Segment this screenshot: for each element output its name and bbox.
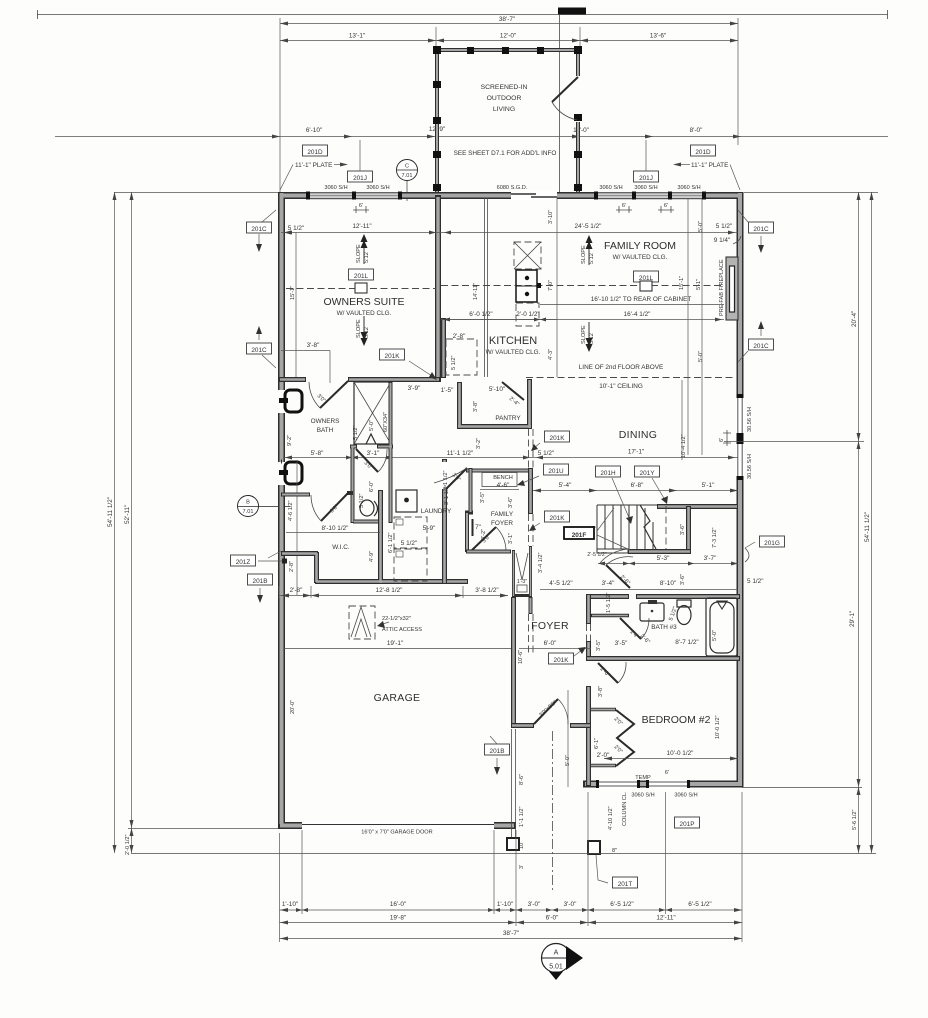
label 201C right top: [749, 222, 774, 233]
svg-text:12'-11": 12'-11": [352, 223, 371, 230]
svg-text:3060 S/H: 3060 S/H: [634, 185, 657, 191]
svg-text:5'-1": 5'-1": [696, 279, 702, 290]
svg-text:10'-0 1/2": 10'-0 1/2": [667, 750, 694, 757]
shower: [353, 382, 391, 444]
svg-text:6': 6': [665, 770, 669, 776]
SECTION:ANNROW: [280, 140, 740, 191]
svg-text:8'-10 1/2": 8'-10 1/2": [322, 525, 349, 532]
svg-text:3'-2": 3'-2": [481, 529, 487, 540]
svg-text:201C: 201C: [251, 226, 267, 233]
svg-text:201H: 201H: [600, 470, 616, 477]
svg-text:5'-9": 5'-9": [423, 525, 436, 532]
svg-text:54'-11 1/2": 54'-11 1/2": [107, 497, 114, 527]
svg-text:COLUMN CL.: COLUMN CL.: [622, 791, 628, 826]
svg-text:6'-8": 6'-8": [631, 482, 644, 489]
SECTION:SIDEDIMS: [107, 192, 878, 855]
top border line: [37, 14, 888, 16]
svg-text:3'0": 3'0": [329, 504, 340, 515]
top wall window band family room: [594, 192, 706, 200]
svg-text:11'-1" PLATE: 11'-1" PLATE: [691, 162, 728, 169]
svg-text:30.56 S/H: 30.56 S/H: [747, 454, 753, 479]
svg-text:38'-7": 38'-7": [499, 16, 515, 23]
svg-text:B: B: [246, 500, 250, 506]
svg-text:9 1/4": 9 1/4": [714, 237, 730, 244]
label 201B wic: [248, 574, 273, 585]
svg-text:13'-6": 13'-6": [650, 33, 666, 40]
svg-text:12'-0": 12'-0": [500, 33, 516, 40]
right dim 54-11: [871, 192, 873, 853]
svg-text:3'-10": 3'-10": [548, 210, 554, 224]
svg-text:6'-5 1/2": 6'-5 1/2": [610, 901, 633, 908]
svg-text:3'-6": 3'-6": [508, 497, 514, 508]
owners suite right wall: [435, 195, 441, 379]
left wall window symbol 2: [278, 462, 302, 485]
svg-text:2'-0 1/2": 2'-0 1/2": [516, 311, 539, 318]
label 201U: [544, 464, 569, 475]
svg-text:6'-5 1/2": 6'-5 1/2": [688, 901, 711, 908]
kitchen cabinet dashed: [446, 339, 477, 375]
washer dryer: [394, 517, 427, 581]
svg-text:6'-10": 6'-10": [306, 127, 322, 134]
svg-text:6'-0 1/2": 6'-0 1/2": [469, 311, 492, 318]
leaders from 201J: [359, 140, 361, 171]
svg-text:4'-10 1/2": 4'-10 1/2": [608, 806, 614, 830]
svg-text:3': 3': [519, 865, 525, 869]
svg-text:201K: 201K: [550, 435, 566, 442]
entry porch side edges: [511, 729, 513, 838]
svg-text:201K: 201K: [385, 353, 401, 360]
svg-text:W.I.C.: W.I.C.: [332, 544, 350, 551]
bath3 top wall: [586, 594, 740, 599]
foyer west cased opening: [529, 597, 533, 614]
coat niche: [512, 546, 532, 597]
svg-text:20'-4": 20'-4": [851, 311, 858, 327]
svg-text:1'-10": 1'-10": [497, 901, 513, 908]
svg-text:201Y: 201Y: [640, 470, 656, 477]
svg-text:38'-7": 38'-7": [503, 930, 519, 937]
svg-text:3'-8": 3'-8": [473, 401, 479, 412]
svg-text:201C: 201C: [753, 343, 769, 350]
svg-text:5:12: 5:12: [589, 333, 595, 344]
svg-text:12'-11": 12'-11": [656, 915, 675, 922]
svg-text:6'-0": 6'-0": [369, 481, 375, 492]
svg-text:2'0": 2'0": [613, 716, 624, 727]
label 201C left bottom: [247, 343, 272, 354]
section marker bar: [558, 8, 586, 15]
svg-text:5'-8": 5'-8": [311, 450, 324, 457]
svg-text:KITCHEN: KITCHEN: [489, 335, 537, 347]
svg-text:16'0" x 7'0" GARAGE DOOR: 16'0" x 7'0" GARAGE DOOR: [361, 830, 432, 836]
svg-text:10'-6": 10'-6": [518, 650, 524, 664]
svg-text:3'-4 1/2": 3'-4 1/2": [538, 553, 544, 573]
svg-text:8'-7 1/2": 8'-7 1/2": [675, 639, 698, 646]
svg-text:6'-0": 6'-0": [546, 915, 559, 922]
svg-text:3060 S/H: 3060 S/H: [677, 185, 700, 191]
fireplace: [719, 257, 738, 320]
family foyer door: [471, 527, 496, 551]
kitchen nib wall: [441, 318, 446, 378]
svg-text:SLOPE: SLOPE: [581, 325, 587, 344]
svg-text:12'-8 1/2": 12'-8 1/2": [376, 587, 403, 594]
svg-text:5'-0": 5'-0": [698, 221, 704, 232]
entry porch columns: [507, 838, 519, 850]
svg-text:BATH #3: BATH #3: [651, 624, 677, 631]
svg-text:11'-1" PLATE: 11'-1" PLATE: [295, 162, 332, 169]
svg-text:20'-0": 20'-0": [290, 700, 296, 714]
svg-text:DINING: DINING: [619, 429, 658, 441]
stair dims: [533, 490, 738, 492]
svg-text:2'-8": 2'-8": [453, 333, 466, 340]
wic door: [321, 492, 349, 521]
svg-text:5 1/2": 5 1/2": [359, 494, 365, 508]
top wall window band owners suite: [306, 192, 402, 200]
svg-text:5:12: 5:12: [589, 253, 595, 264]
stairs: [588, 505, 666, 553]
SECTION:BOTTOMDIMS: [280, 792, 743, 942]
svg-text:201T: 201T: [618, 881, 633, 888]
label 201J left: [348, 171, 373, 182]
svg-text:7'-3 1/2": 7'-3 1/2": [712, 528, 718, 548]
svg-text:14'-11": 14'-11": [473, 283, 479, 300]
stair right wall: [686, 506, 691, 552]
section cut line A vertical: [559, 14, 561, 192]
kitchen partition thin: [484, 198, 486, 377]
label 201H: [596, 466, 621, 477]
svg-text:2'-8": 2'-8": [290, 587, 303, 594]
svg-text:3'-5": 3'-5": [596, 640, 602, 651]
svg-text:201D: 201D: [695, 149, 711, 156]
top wall sliding door 6080: [511, 191, 557, 200]
SECTION:GARAGE: [131, 597, 876, 888]
svg-text:4'-5 1/2": 4'-5 1/2": [549, 580, 572, 587]
svg-text:W/ VAULTED CLG.: W/ VAULTED CLG.: [337, 310, 392, 317]
svg-text:6': 6': [359, 203, 363, 209]
svg-text:16'-4 1/2": 16'-4 1/2": [624, 311, 651, 318]
svg-text:GARAGE: GARAGE: [374, 692, 421, 704]
svg-text:201J: 201J: [639, 175, 653, 182]
svg-text:FOYER: FOYER: [531, 620, 569, 632]
svg-text:201K: 201K: [554, 657, 570, 664]
svg-text:LIVING: LIVING: [493, 106, 515, 113]
SECTION:EXTWALLS: [278, 191, 745, 836]
svg-text:29'-1": 29'-1": [849, 611, 856, 627]
svg-text:2'-6": 2'-6": [599, 666, 611, 678]
mud dim row: [279, 595, 508, 597]
svg-text:LAUNDRY: LAUNDRY: [421, 508, 452, 515]
svg-text:201C: 201C: [251, 347, 267, 354]
svg-text:1'-5": 1'-5": [441, 387, 454, 394]
bedroom2 closet: [590, 710, 616, 766]
hall door to bath3: [606, 565, 630, 588]
svg-text:7.01: 7.01: [243, 509, 254, 515]
svg-text:5'-0": 5'-0": [369, 420, 375, 431]
bath3 toilet: [677, 600, 691, 625]
svg-text:8'-6": 8'-6": [519, 774, 525, 785]
kitchen island hatched: [514, 242, 541, 326]
svg-text:4'-9": 4'-9": [369, 551, 375, 562]
dim row 38-7: [280, 938, 743, 940]
porch front line: [131, 853, 876, 855]
svg-text:OWNERS SUITE: OWNERS SUITE: [323, 296, 404, 308]
foyer south wall with front door: [511, 723, 591, 728]
pantry door: [502, 382, 524, 400]
svg-text:SLOPE: SLOPE: [356, 319, 362, 338]
svg-text:201B: 201B: [490, 748, 505, 755]
SECTION:PORCH: [433, 46, 582, 194]
svg-text:FAMILY ROOM: FAMILY ROOM: [604, 240, 676, 252]
svg-text:2'0": 2'0": [613, 744, 624, 755]
laundry door: [441, 462, 448, 489]
family foyer top wall: [466, 469, 533, 473]
svg-text:201L: 201L: [354, 273, 369, 280]
dim row 13'-1 / 12'-0 / 13'-6: [280, 40, 738, 42]
hall dims: [540, 589, 738, 591]
family foyer bottom wall: [466, 550, 511, 554]
svg-text:201B: 201B: [253, 578, 268, 585]
label 201T: [613, 877, 638, 888]
svg-text:5'-3": 5'-3": [657, 555, 670, 562]
svg-text:201P: 201P: [680, 821, 695, 828]
svg-text:PANTRY: PANTRY: [495, 415, 521, 422]
SECTION:RIGHTROOMS: [441, 199, 785, 787]
label 201Z: [231, 555, 256, 566]
svg-text:3'-8": 3'-8": [307, 342, 320, 349]
svg-text:11'-1 1/2": 11'-1 1/2": [447, 450, 473, 457]
laundry walls: [442, 459, 447, 584]
family room right dims: [687, 199, 689, 455]
label 201B garage: [485, 744, 510, 755]
label 201P: [675, 817, 700, 828]
porch screen walls: [437, 50, 578, 194]
svg-text:3'-8 1/2": 3'-8 1/2": [475, 587, 498, 594]
foyer bedroom divider wall: [586, 594, 591, 786]
label 201K foyer mid: [545, 511, 570, 522]
kitchen dims: [556, 198, 558, 377]
label 201G: [760, 536, 785, 547]
svg-text:2'-5 1/2": 2'-5 1/2": [587, 552, 607, 558]
svg-text:FOYER: FOYER: [491, 520, 513, 527]
label 201K foyer: [549, 653, 574, 664]
label 201K dining opening top: [545, 431, 570, 442]
svg-text:FAMILY: FAMILY: [491, 511, 514, 518]
dim 38'-7": [280, 23, 738, 25]
svg-text:SCREENED-IN: SCREENED-IN: [481, 84, 528, 91]
svg-text:201C: 201C: [753, 226, 769, 233]
ridge dashed line: [286, 288, 436, 290]
svg-text:201F: 201F: [572, 532, 587, 539]
section circle A 5.01: [542, 944, 584, 981]
owners bath door: [320, 381, 348, 408]
section centerline at entry: [552, 731, 554, 892]
svg-text:SLOPE: SLOPE: [581, 245, 587, 264]
porch posts: [433, 46, 441, 54]
svg-text:60"X34": 60"X34": [383, 412, 389, 432]
svg-text:2'-0 1/2": 2'-0 1/2": [125, 835, 131, 855]
plate note right: [673, 163, 681, 167]
svg-text:2'-8": 2'-8": [289, 561, 295, 572]
svg-text:3'-5": 3'-5": [615, 640, 628, 647]
label 201C right bottom: [749, 339, 774, 350]
family foyer left walls: [281, 462, 473, 553]
svg-text:W/ VAULTED CLG.: W/ VAULTED CLG.: [486, 349, 541, 356]
left wall window symbol 1: [278, 390, 302, 413]
svg-text:5 1/2": 5 1/2": [401, 540, 417, 547]
section circle C 7.01: [397, 160, 418, 202]
svg-text:15'-1": 15'-1": [679, 276, 685, 290]
svg-text:3'0"x8'0": 3'0"x8'0": [538, 700, 558, 719]
svg-text:30.56 S/H: 30.56 S/H: [747, 407, 753, 432]
svg-text:BATH: BATH: [317, 427, 334, 434]
svg-text:3'-5": 3'-5": [480, 492, 486, 503]
svg-text:5 1/2": 5 1/2": [538, 450, 554, 457]
svg-text:201K: 201K: [550, 515, 566, 522]
svg-text:1'-1 1/2": 1'-1 1/2": [519, 807, 525, 827]
wc door: [356, 449, 378, 472]
SECTION:TOPDIMS: [55, 16, 888, 192]
svg-text:3'-4": 3'-4": [602, 580, 615, 587]
svg-text:2'-6": 2'-6": [619, 574, 631, 586]
svg-text:3'-1 1/2": 3'-1 1/2": [443, 471, 449, 491]
right extension lines: [744, 192, 878, 194]
svg-text:5'-6 1/2": 5'-6 1/2": [852, 810, 858, 830]
left extension lines: [114, 192, 278, 194]
porch door: [552, 77, 578, 102]
svg-text:4'-6 1/2": 4'-6 1/2": [288, 501, 294, 521]
slope arrows family room: [581, 235, 595, 265]
svg-text:201J: 201J: [353, 175, 367, 182]
svg-text:54'-11 1/2": 54'-11 1/2": [864, 512, 871, 542]
svg-text:W/ VAULTED CLG.: W/ VAULTED CLG.: [613, 254, 668, 261]
wc walls: [350, 382, 393, 523]
svg-text:6': 6': [622, 203, 626, 209]
svg-text:3'-8": 3'-8": [598, 686, 604, 697]
label 201K pantry: [380, 349, 405, 360]
svg-text:201D: 201D: [307, 149, 323, 156]
svg-text:C: C: [405, 164, 409, 170]
svg-text:BEDROOM #2: BEDROOM #2: [642, 714, 711, 726]
svg-text:OWNERS: OWNERS: [311, 418, 340, 425]
svg-text:LINE OF 2nd FLOOR ABOVE: LINE OF 2nd FLOOR ABOVE: [579, 364, 664, 371]
bath3 tub: [706, 598, 737, 656]
svg-text:52'-11": 52'-11": [124, 505, 131, 524]
svg-text:15'-1": 15'-1": [290, 286, 296, 300]
toilet: [360, 500, 378, 516]
svg-text:TEMP: TEMP: [635, 775, 651, 781]
svg-text:SEE SHEET D7.1 FOR ADD'L INFO: SEE SHEET D7.1 FOR ADD'L INFO: [454, 150, 557, 157]
svg-text:3'-0": 3'-0": [564, 901, 577, 908]
svg-text:1'-10": 1'-10": [282, 901, 298, 908]
svg-text:5 1/2": 5 1/2": [716, 223, 732, 230]
svg-text:8'-10": 8'-10": [660, 580, 676, 587]
svg-text:3060 S/H: 3060 S/H: [366, 185, 389, 191]
stair top wall: [657, 504, 738, 509]
dim row 6'-10 / 12'-9 / 11'-0 / 8'-0: [55, 136, 888, 138]
svg-text:7'-0": 7'-0": [548, 280, 554, 291]
svg-text:5.01: 5.01: [549, 964, 563, 971]
label 201D right: [691, 145, 716, 156]
left dim 54-11: [114, 192, 116, 853]
svg-text:3'0": 3'0": [451, 472, 462, 483]
svg-text:3'-1": 3'-1": [508, 533, 514, 544]
family foyer right wall: [528, 468, 533, 514]
svg-text:BENCH: BENCH: [493, 475, 513, 481]
svg-text:ATTIC ACCESS: ATTIC ACCESS: [382, 627, 422, 633]
svg-text:A: A: [554, 950, 559, 957]
bath3 closet nib wall: [591, 614, 629, 617]
right dim 20-4 / 29-1 / 5-6: [858, 192, 860, 853]
foyer door into bedroom hall: [598, 663, 618, 683]
label 201L owners: [349, 269, 374, 280]
svg-text:5 1/2": 5 1/2": [747, 578, 763, 585]
label 201F: [564, 527, 594, 539]
bath3 bottom wall: [586, 656, 740, 661]
bedroom2 bottom windows: [596, 770, 698, 799]
label 201Y: [635, 466, 660, 477]
svg-text:3'-9": 3'-9": [408, 385, 421, 392]
svg-text:22-1/2"x32": 22-1/2"x32": [382, 616, 411, 622]
svg-text:3'0": 3'0": [363, 460, 374, 471]
svg-text:5:12: 5:12: [364, 327, 370, 338]
svg-text:5'-4": 5'-4": [559, 482, 572, 489]
svg-text:16'-0": 16'-0": [390, 901, 406, 908]
svg-text:2'-4": 2'-4": [508, 396, 520, 408]
svg-text:19'-1": 19'-1": [387, 640, 403, 647]
svg-text:13'-1": 13'-1": [349, 33, 365, 40]
svg-text:2'4": 2'4": [629, 629, 640, 640]
wic walls: [281, 490, 468, 584]
svg-text:201G: 201G: [764, 540, 780, 547]
laundry tub: [396, 490, 417, 512]
svg-text:6080 S.G.D.: 6080 S.G.D.: [497, 185, 528, 191]
svg-text:3'-1": 3'-1": [367, 450, 380, 457]
extension lines top: [279, 18, 281, 192]
wic top wall: [281, 493, 353, 495]
stair bottom wall: [628, 549, 691, 554]
svg-text:1'-3": 1'-3": [517, 579, 527, 585]
slope arrows owners suite: [356, 234, 370, 264]
svg-text:5'-0": 5'-0": [712, 630, 718, 641]
svg-text:19'-8": 19'-8": [390, 915, 406, 922]
bench: [482, 473, 517, 487]
svg-text:5 1/2": 5 1/2": [353, 426, 359, 440]
svg-text:16'-10 1/2" TO REAR OF CABINET: 16'-10 1/2" TO REAR OF CABINET: [591, 296, 692, 303]
svg-text:8'-0": 8'-0": [690, 127, 703, 134]
bath3 wc door: [620, 618, 641, 639]
SECTION:LEFTROOMS: [231, 195, 739, 603]
garage top line: [284, 648, 516, 650]
svg-text:7.01: 7.01: [402, 173, 413, 179]
attic access: [349, 606, 422, 639]
svg-text:10'-0 1/2": 10'-0 1/2": [715, 715, 721, 739]
owners bath dims: [283, 457, 533, 459]
label 201J right: [634, 171, 659, 182]
svg-text:OUTDOOR: OUTDOOR: [487, 95, 522, 102]
svg-text:201Z: 201Z: [236, 559, 251, 566]
dim row 19-8: [280, 922, 743, 924]
svg-text:10'-1" CEILING: 10'-1" CEILING: [599, 383, 643, 390]
svg-text:6': 6': [664, 203, 668, 209]
svg-text:5:12: 5:12: [364, 252, 370, 263]
bottom extension lines: [279, 833, 281, 942]
svg-text:SLOPE: SLOPE: [356, 244, 362, 263]
svg-text:3060 S/H: 3060 S/H: [674, 793, 697, 799]
label 201L family: [634, 271, 659, 282]
dim row garage door: [280, 909, 743, 911]
pantry walls: [457, 379, 532, 429]
svg-text:1'-5 1/2": 1'-5 1/2": [606, 593, 612, 613]
svg-text:4'-3": 4'-3": [548, 349, 554, 360]
exterior wall outline: [278, 192, 743, 826]
